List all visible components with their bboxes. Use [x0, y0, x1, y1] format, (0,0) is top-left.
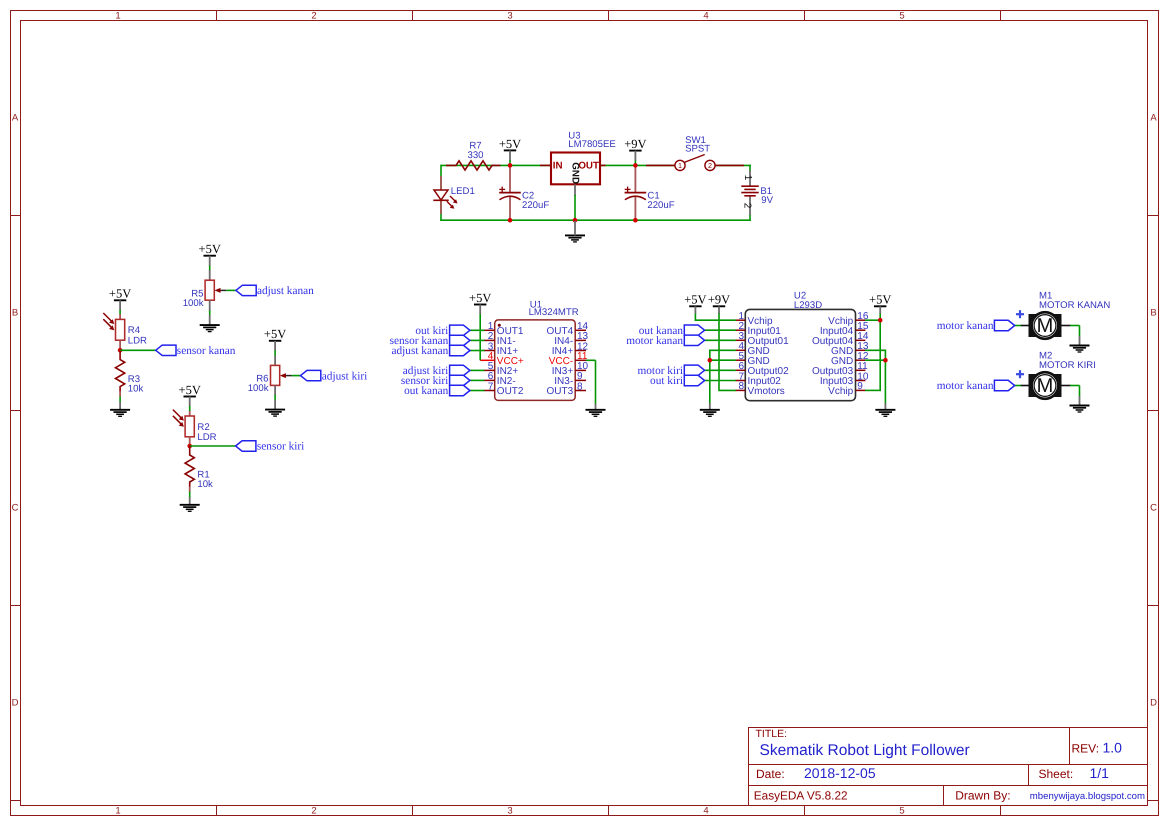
svg-text:Vchip: Vchip: [828, 386, 853, 397]
svg-text:REV:: REV:: [1072, 742, 1100, 756]
svg-text:OUT2: OUT2: [497, 386, 524, 397]
U1 pin1 dot: [498, 324, 501, 327]
svg-text:9V: 9V: [761, 195, 773, 206]
svg-text:out kanan: out kanan: [404, 385, 449, 397]
wire bottom rail: [440, 219, 751, 221]
svg-text:M: M: [1037, 315, 1054, 337]
voltage regulator U3 LM7805EE: [551, 153, 600, 185]
wire U2 +5V to pin1: [694, 306, 696, 314]
svg-text:LDR: LDR: [128, 336, 147, 347]
U1 pin 2 IN1-: [484, 339, 495, 341]
U1 pin 9 IN3-: [575, 379, 586, 381]
svg-text:2: 2: [708, 161, 712, 170]
wire U1 VCC- to ground: [586, 359, 596, 361]
svg-text:+5V: +5V: [264, 327, 286, 341]
svg-text:LED1: LED1: [451, 186, 475, 197]
junction U2 pin16 +5V: [878, 318, 883, 323]
wire U3 gnd stem: [574, 221, 576, 235]
svg-text:sensor kiri: sensor kiri: [257, 441, 304, 453]
svg-text:2018-12-05: 2018-12-05: [804, 765, 876, 781]
svg-text:C: C: [12, 503, 19, 514]
net flag motor kanan (U2): [684, 335, 704, 345]
ground (motor M2): [1070, 406, 1090, 413]
motor M1 right pin: [1062, 325, 1071, 327]
wire U2 GND pins 4,5 to ground: [710, 350, 736, 403]
U2 pin 13 GND: [856, 349, 866, 351]
LDR R4: [103, 313, 124, 340]
U2 pin 11 Output03: [856, 369, 866, 371]
wire flag motor kiri to U2: [705, 369, 736, 371]
wire R6 wiper to flag: [292, 375, 301, 377]
wire U1 +5V to VCC+: [479, 305, 481, 315]
junction top rail / C1: [633, 163, 638, 168]
title block: [749, 728, 1148, 806]
motor M2: [1029, 372, 1062, 399]
svg-text:B: B: [12, 308, 18, 319]
svg-text:B: B: [1150, 308, 1156, 319]
U1 pin 7 OUT2: [484, 390, 495, 392]
power +5V (top): [499, 137, 521, 151]
U2 pin 9 Vchip: [856, 389, 866, 391]
ground (R1): [180, 505, 200, 512]
svg-text:1: 1: [742, 175, 753, 181]
capacitor C2: [499, 165, 521, 220]
resistor R1 10k: [185, 446, 194, 487]
power +5V (R6): [264, 327, 286, 341]
svg-text:R4: R4: [128, 325, 141, 336]
svg-text:330: 330: [467, 150, 483, 161]
svg-text:R2: R2: [197, 422, 209, 433]
junction bottom rail / C2: [508, 218, 513, 223]
wire flag adjust kiri to U1: [470, 369, 485, 371]
U2 pin 16 Vchip: [856, 319, 866, 321]
wire node to flag sensor kiri: [190, 445, 236, 447]
power +9V (U2): [708, 293, 730, 307]
U1 pin 12 IN4+: [575, 350, 586, 352]
wire U2 pin16 to +5V: [865, 319, 880, 321]
svg-text:1.0: 1.0: [1103, 740, 1123, 756]
net flag adjust kiri: [301, 370, 321, 380]
U2 pin 5 GND: [735, 359, 745, 361]
net flag sensor kanan: [156, 345, 176, 355]
wire R6 top: [274, 341, 276, 351]
power +5V (R4): [109, 287, 131, 301]
driver IC U2 L293D body: [745, 309, 855, 400]
wire U2 +9V to Vmotors pin8: [718, 306, 720, 314]
U1 pin 13 IN4-: [575, 339, 586, 341]
wire R5 bottom: [209, 300, 211, 311]
wire flag sensor kiri to U1: [470, 379, 485, 381]
svg-text:2: 2: [311, 11, 316, 22]
wire R4 bottom to node: [119, 340, 121, 350]
svg-text:100k: 100k: [248, 383, 269, 394]
svg-text:+5V: +5V: [499, 137, 521, 151]
power +5V (R2): [179, 383, 201, 397]
svg-text:Vmotors: Vmotors: [748, 386, 785, 397]
ground (motor M1): [1070, 346, 1090, 353]
svg-text:Skematik Robot Light Follower: Skematik Robot Light Follower: [760, 742, 970, 759]
U1 pin 3 IN1+: [484, 350, 495, 352]
ground (U1 VCC-): [586, 410, 606, 417]
svg-text:1: 1: [678, 161, 682, 170]
svg-text:5: 5: [899, 806, 904, 817]
svg-text:sensor kanan: sensor kanan: [177, 345, 236, 357]
svg-text:1: 1: [115, 11, 120, 22]
wire out rail: [600, 164, 676, 166]
net flag adjust kanan (U1): [450, 345, 470, 355]
ground (U2 right): [875, 410, 895, 417]
svg-text:+9V: +9V: [624, 137, 646, 151]
power +5V (U1): [469, 291, 491, 305]
svg-text:1: 1: [115, 806, 120, 817]
U2 pin 8 Vmotors: [735, 389, 745, 391]
svg-text:+9V: +9V: [708, 293, 730, 307]
U2 pin 3 Output01: [735, 339, 745, 341]
U1 pin 6 IN2-: [484, 379, 495, 381]
svg-text:220uF: 220uF: [647, 200, 674, 211]
svg-text:+5V: +5V: [869, 293, 891, 307]
svg-text:+5V: +5V: [199, 242, 221, 256]
svg-text:SPST: SPST: [685, 143, 710, 154]
svg-text:adjust kanan: adjust kanan: [257, 285, 314, 297]
svg-text:+5V: +5V: [109, 287, 131, 301]
junction bottom rail / C1: [633, 218, 638, 223]
wire flag adjust kanan to U1: [470, 350, 485, 352]
svg-text:L293D: L293D: [794, 300, 822, 311]
motor M1 plus sign: [1016, 310, 1024, 318]
motor M2 plus sign: [1016, 370, 1024, 378]
svg-text:C: C: [1150, 503, 1157, 514]
U2 pin 1 Vchip: [735, 319, 745, 321]
wire sw to battery: [714, 164, 751, 166]
svg-text:10k: 10k: [197, 479, 213, 490]
capacitor C1: [625, 165, 647, 220]
node sensor kanan: [118, 348, 123, 353]
U1 pin 5 IN2+: [484, 369, 495, 371]
svg-text:1/1: 1/1: [1090, 765, 1110, 781]
svg-text:TITLE:: TITLE:: [756, 728, 788, 740]
frame row letters: [12, 113, 1158, 709]
potentiometer R5 100k: [205, 280, 226, 300]
net flag sensor kiri (U1): [450, 375, 470, 385]
svg-text:motor kanan: motor kanan: [937, 320, 994, 332]
ground (R3): [110, 410, 130, 417]
U2 pin 7 Input02: [735, 380, 745, 382]
net flag out kiri (U2): [684, 375, 704, 385]
svg-text:4: 4: [703, 806, 708, 817]
svg-text:GND: GND: [570, 162, 581, 184]
wire left rail: [440, 165, 442, 221]
net flag out kanan (U1): [450, 385, 470, 395]
svg-text:Sheet:: Sheet:: [1039, 767, 1074, 781]
wire right rail top: [749, 165, 751, 171]
wire R2 bottom to node: [189, 437, 191, 446]
net flag motor kiri (U2): [684, 365, 704, 375]
wire motor M2 to ground: [1070, 385, 1080, 387]
svg-text:OUT3: OUT3: [547, 386, 574, 397]
wire flag to motor M2: [1015, 385, 1021, 387]
motor M2 left pin: [1021, 385, 1029, 387]
U1 pin 1 OUT1: [484, 329, 495, 331]
svg-text:D: D: [12, 698, 19, 709]
wire R5 top: [209, 256, 211, 266]
power +9V (top): [624, 137, 646, 151]
U1 pin 11 VCC-: [575, 359, 586, 361]
net flag sensor kiri: [236, 441, 256, 451]
node sensor kiri: [187, 444, 192, 449]
op-amp IC U1 LM324MTR body: [495, 320, 576, 401]
svg-text:Date:: Date:: [756, 767, 785, 781]
resistor R7: [446, 161, 501, 170]
junction top rail / C2: [508, 163, 513, 168]
wire flag to motor M1: [1015, 325, 1021, 327]
svg-text:EasyEDA V5.8.22: EasyEDA V5.8.22: [754, 788, 848, 802]
wire R5 wiper to flag: [226, 289, 236, 291]
svg-text:A: A: [1150, 113, 1157, 124]
svg-text:adjust kiri: adjust kiri: [322, 370, 368, 382]
ground (U2 left): [700, 410, 720, 417]
wire R4 top: [119, 300, 121, 310]
U1 pin 8 OUT3: [575, 390, 586, 392]
U2 pin 10 Input03: [856, 380, 866, 382]
net flag adjust kiri (U1): [450, 365, 470, 375]
wire U2 GND pins 13,12 to ground: [865, 350, 885, 403]
svg-text:3: 3: [507, 11, 512, 22]
junction bottom rail / U3 GND: [573, 218, 578, 223]
pin U3.IN stub: [540, 164, 551, 166]
U1 pin 14 OUT4: [575, 329, 586, 331]
wire flag out kanan to U2: [705, 329, 736, 331]
net flag sensor kanan (U1): [450, 335, 470, 345]
svg-text:8: 8: [577, 381, 583, 392]
U1 pin 10 IN3+: [575, 369, 586, 371]
svg-text:2: 2: [311, 806, 316, 817]
U2 pin 12 GND: [856, 359, 866, 361]
motor M2 right pin: [1062, 385, 1071, 387]
wire motor M1 to ground: [1070, 325, 1080, 327]
svg-text:+5V: +5V: [684, 293, 706, 307]
svg-text:MOTOR KANAN: MOTOR KANAN: [1039, 300, 1110, 311]
pin U3.OUT stub: [600, 164, 606, 166]
svg-text:LM324MTR: LM324MTR: [529, 307, 579, 318]
svg-text:4: 4: [703, 11, 708, 22]
wire U2 right +5V rail: [879, 306, 881, 314]
power +5V (U2 right): [869, 293, 891, 307]
U2 pin 6 Output02: [735, 369, 745, 371]
wire U2 pin9 to +5V: [865, 389, 881, 391]
svg-text:10k: 10k: [128, 383, 144, 394]
svg-text:mbenywijaya.blogspot.com: mbenywijaya.blogspot.com: [1030, 791, 1145, 802]
svg-text:MOTOR KIRI: MOTOR KIRI: [1039, 360, 1096, 371]
svg-text:Drawn By:: Drawn By:: [955, 788, 1010, 802]
potentiometer R6 100k: [271, 365, 292, 385]
wire R6 bottom: [274, 385, 276, 395]
wire flag motor kanan to U2: [705, 339, 736, 341]
ground (R6): [265, 410, 285, 417]
resistor R3 10k: [116, 351, 125, 392]
power +5V (R5): [199, 242, 221, 256]
U2 pin 14 Output04: [856, 339, 866, 341]
U2 pin 15 Input04: [856, 329, 866, 331]
svg-text:LM7805EE: LM7805EE: [568, 139, 615, 150]
LED LED1: [433, 176, 457, 214]
wire R1 to ground: [189, 486, 191, 492]
svg-text:7: 7: [488, 381, 494, 392]
LDR R2: [173, 410, 194, 437]
U2 pin 2 Input01: [735, 329, 745, 331]
svg-text:8: 8: [738, 381, 744, 392]
svg-text:M: M: [1037, 375, 1054, 397]
junction U2 gnd left: [708, 358, 713, 363]
svg-text:3: 3: [507, 806, 512, 817]
net flag motor kanan (motor M2): [994, 380, 1014, 390]
wire right rail bottom: [749, 214, 751, 221]
svg-text:+5V: +5V: [469, 291, 491, 305]
svg-text:LDR: LDR: [197, 432, 216, 443]
svg-text:220uF: 220uF: [522, 200, 549, 211]
wire +9V stem: [634, 151, 636, 161]
U2 pin 4 GND: [735, 349, 745, 351]
net flag out kanan (U2): [684, 325, 704, 335]
wire top rail: [441, 164, 551, 166]
wire flag out kanan to U1: [470, 390, 485, 392]
net flag out kiri (U1): [450, 325, 470, 335]
junction U2 gnd right: [883, 358, 888, 363]
svg-text:out kiri: out kiri: [650, 375, 683, 387]
wire flag out kiri to U2: [705, 380, 736, 382]
svg-text:9: 9: [857, 381, 863, 392]
ground (R5): [200, 325, 220, 332]
wire +5V stem: [509, 150, 511, 160]
svg-text:motor kanan: motor kanan: [937, 380, 994, 392]
frame column numbers: [115, 11, 904, 817]
motor M1 left pin: [1021, 325, 1029, 327]
motor M1: [1029, 312, 1062, 339]
battery B1 9V: [741, 171, 758, 216]
wire node to flag sensor kanan: [120, 349, 156, 351]
svg-text:5: 5: [899, 11, 904, 22]
svg-text:IN: IN: [553, 161, 563, 172]
svg-text:2: 2: [741, 203, 752, 209]
svg-text:A: A: [12, 113, 19, 124]
wire flag sensor kanan to U1: [470, 339, 485, 341]
svg-text:motor kanan: motor kanan: [626, 335, 683, 347]
ground (power supply): [565, 235, 585, 242]
U1 pin 4 VCC+: [480, 359, 495, 361]
net flag motor kanan (motor M1): [994, 320, 1014, 330]
svg-text:+5V: +5V: [179, 383, 201, 397]
pin U3.GND stub: [574, 184, 576, 196]
wire R3 to ground: [119, 391, 121, 397]
net flag adjust kanan: [236, 285, 256, 295]
svg-text:D: D: [1150, 698, 1157, 709]
wire flag out kiri to U1: [470, 329, 485, 331]
power +5V (U2 left): [684, 293, 706, 307]
svg-text:adjust kanan: adjust kanan: [392, 345, 449, 357]
wire R2 top: [189, 397, 191, 407]
svg-text:100k: 100k: [183, 298, 204, 309]
switch SW1 SPST: [646, 155, 744, 171]
